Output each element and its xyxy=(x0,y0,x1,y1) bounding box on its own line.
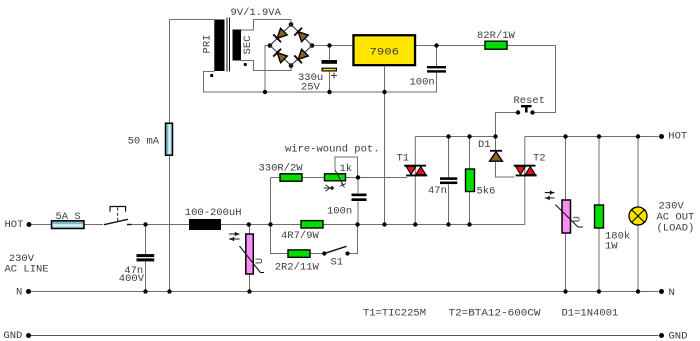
svg-text:Reset: Reset xyxy=(514,95,546,107)
svg-text:wire-wound pot.: wire-wound pot. xyxy=(285,144,380,156)
svg-text:50 mA: 50 mA xyxy=(128,136,160,148)
svg-text:400V: 400V xyxy=(119,273,145,285)
svg-text:1k: 1k xyxy=(340,163,353,175)
svg-text:5A S: 5A S xyxy=(56,211,81,223)
svg-text:HOT: HOT xyxy=(5,219,24,231)
svg-text:GND: GND xyxy=(3,330,22,341)
svg-text:T1: T1 xyxy=(397,153,410,165)
svg-text:4R7/9W: 4R7/9W xyxy=(281,230,320,242)
svg-text:HOT: HOT xyxy=(668,131,687,143)
svg-text:T2=BTA12-600CW: T2=BTA12-600CW xyxy=(449,308,542,320)
svg-text:D1=1N4001: D1=1N4001 xyxy=(562,308,619,320)
svg-text:D1: D1 xyxy=(478,139,491,151)
svg-text:PRI: PRI xyxy=(202,35,214,54)
svg-text:2R2/11W: 2R2/11W xyxy=(275,262,320,274)
svg-text:100n: 100n xyxy=(410,77,435,89)
svg-text:25V: 25V xyxy=(301,82,321,94)
svg-text:5k6: 5k6 xyxy=(477,186,496,198)
svg-text:(LOAD): (LOAD) xyxy=(657,223,695,235)
svg-text:82R/1W: 82R/1W xyxy=(477,30,516,42)
svg-text:U: U xyxy=(254,258,266,264)
svg-text:N: N xyxy=(669,287,675,299)
svg-text:47n: 47n xyxy=(428,185,447,197)
svg-text:1W: 1W xyxy=(605,241,618,253)
svg-text:S1: S1 xyxy=(331,257,344,269)
svg-text:N: N xyxy=(16,287,22,299)
svg-text:SEC: SEC xyxy=(242,36,254,55)
svg-text:100n: 100n xyxy=(327,206,352,218)
svg-text:9V/1.9VA: 9V/1.9VA xyxy=(231,7,282,19)
svg-text:100-200uH: 100-200uH xyxy=(185,207,242,219)
svg-text:U: U xyxy=(572,216,584,222)
svg-text:T2: T2 xyxy=(533,153,546,165)
svg-text:7906: 7906 xyxy=(370,47,400,59)
svg-text:330R/2W: 330R/2W xyxy=(259,163,304,175)
svg-text:AC LINE: AC LINE xyxy=(5,264,49,276)
svg-text:GND: GND xyxy=(669,331,688,341)
svg-text:T1=TIC225M: T1=TIC225M xyxy=(363,308,426,320)
